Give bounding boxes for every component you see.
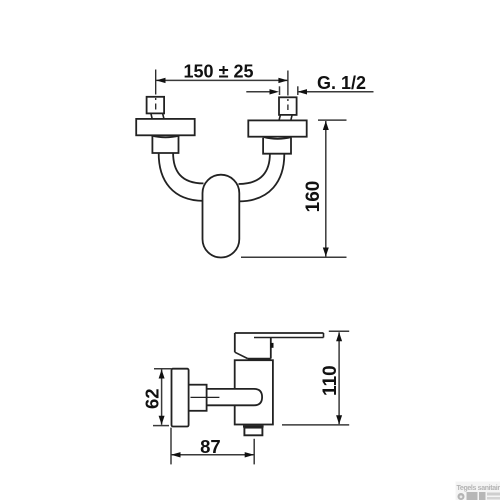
body	[235, 360, 273, 424]
dimension 110 top extension line	[329, 330, 349, 332]
right flange	[248, 120, 306, 136]
svg-text:62: 62	[142, 388, 163, 409]
arrow 160 top	[323, 121, 329, 130]
svg-text:Tegels sanitair: Tegels sanitair	[457, 485, 500, 492]
dimension 62 top extension line	[154, 368, 172, 370]
handle tip	[323, 333, 325, 338]
handle cap left edge	[234, 333, 236, 352]
dimension 110 line	[338, 332, 340, 424]
dimension 87 line	[171, 454, 254, 456]
right centerline	[287, 71, 289, 111]
svg-text:87: 87	[200, 436, 221, 457]
right flange underside arc	[264, 137, 292, 139]
supply pipe	[192, 389, 262, 405]
dimension 87 tick right	[253, 439, 255, 465]
arrow right of 150 dim	[278, 78, 288, 83]
handle cap bottom	[248, 358, 271, 360]
dimension 160 top extension line	[318, 119, 347, 121]
arrow left of 150 dim	[156, 78, 166, 83]
watermark Tegels sanitair	[456, 482, 500, 500]
dimension 160 line	[325, 121, 327, 257]
wall nut	[189, 385, 207, 411]
dimension 160 bottom extension line	[241, 256, 347, 258]
wall flange	[172, 369, 189, 427]
G tick right	[297, 86, 299, 95]
dimension 62 line	[161, 370, 163, 425]
dimension G.1/2 right leader	[298, 91, 374, 93]
arrow 87 right	[245, 452, 255, 457]
dimension G.1/2 left leader	[246, 91, 272, 93]
arrow G left	[270, 89, 280, 94]
dimension 150±25 line	[156, 79, 288, 81]
left fitting nut	[152, 136, 178, 153]
right fitting nut	[263, 138, 291, 154]
handle top edge	[235, 332, 324, 334]
dimension 87 tick left	[170, 428, 172, 465]
left flange	[136, 119, 195, 135]
outlet nipple	[244, 428, 262, 436]
left centerline	[155, 70, 157, 110]
right pipe outer wire	[239, 153, 285, 201]
handle cap chamfer	[235, 352, 248, 358]
arrow 110 top	[336, 332, 342, 341]
handle underside	[254, 337, 324, 339]
arrow 160 bottom	[323, 248, 329, 257]
handle pivot pin	[271, 343, 274, 348]
arrow 62 top	[159, 370, 165, 379]
dimension 62 bottom extension line	[153, 425, 169, 427]
right fitting neck	[279, 115, 292, 121]
right fitting square	[279, 97, 297, 115]
handle cap right edge	[270, 338, 272, 359]
left pipe inner wire	[173, 153, 203, 184]
pipe centerline	[191, 396, 220, 398]
left flange underside arc	[152, 136, 180, 138]
left pipe outer wire	[159, 153, 204, 201]
arrow 62 bottom	[159, 416, 165, 425]
G tick left	[279, 86, 281, 95]
arrow G right	[298, 89, 308, 94]
left fitting square	[147, 97, 165, 114]
arrow 110 bottom	[336, 415, 342, 424]
central capsule body	[203, 175, 240, 258]
svg-text:150 ± 25: 150 ± 25	[184, 62, 254, 82]
svg-text:160: 160	[303, 181, 324, 213]
svg-text:110: 110	[320, 365, 341, 396]
left fitting neck	[151, 113, 164, 119]
right pipe inner wire	[239, 153, 270, 184]
outlet collar	[243, 425, 264, 427]
arrow 87 left	[171, 452, 181, 457]
svg-text:G. 1/2: G. 1/2	[317, 73, 366, 93]
dimension 110 bottom extension line	[282, 424, 349, 426]
